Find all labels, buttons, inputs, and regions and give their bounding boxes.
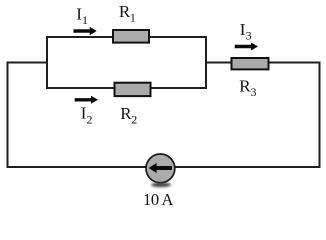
wire: right outer vertical bbox=[319, 62, 321, 169]
arrow: current I3 direction bbox=[235, 43, 258, 51]
wire: from R3 to right edge bbox=[266, 62, 321, 64]
wire: bottom branch through R2 bbox=[46, 87, 206, 89]
resistor R3 bbox=[232, 58, 269, 69]
arrow: current I2 direction bbox=[75, 96, 98, 104]
wire: left horizontal from outer loop to parallel node bbox=[7, 62, 49, 64]
resistor R1 bbox=[113, 30, 149, 43]
current source arrow (pointing left) bbox=[149, 163, 172, 173]
wire: left outer vertical bbox=[7, 62, 9, 169]
svg-text:2: 2 bbox=[131, 113, 137, 127]
svg-text:3: 3 bbox=[246, 29, 252, 43]
arrow: current I1 direction bbox=[74, 27, 97, 35]
svg-text:1: 1 bbox=[82, 13, 88, 27]
wire: middle wire from node B to R3 bbox=[205, 62, 233, 64]
svg-text:2: 2 bbox=[87, 112, 93, 126]
wire: bottom return wire bbox=[7, 166, 321, 168]
resistor R2 bbox=[115, 83, 151, 96]
wire: top branch through R1 bbox=[46, 36, 206, 38]
svg-text:1: 1 bbox=[130, 11, 136, 25]
svg-text:10 A: 10 A bbox=[143, 190, 174, 209]
svg-text:R: R bbox=[239, 76, 251, 95]
current source: 10 A source circle bbox=[146, 154, 175, 183]
node A: left junction vertical of parallel branches bbox=[46, 36, 48, 89]
svg-text:3: 3 bbox=[251, 85, 257, 99]
current source bottom shadow smudge bbox=[151, 183, 171, 187]
node B: right junction vertical of parallel branches bbox=[205, 36, 207, 89]
